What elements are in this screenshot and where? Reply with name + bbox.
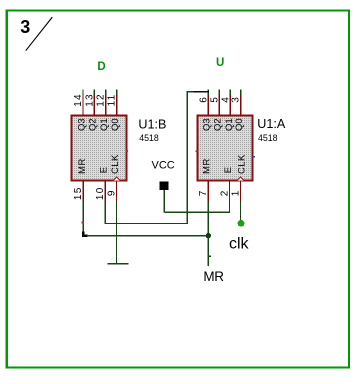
svg-text:12: 12 [96, 93, 107, 107]
black corner of MR wire [83, 232, 87, 236]
svg-text:7: 7 [198, 190, 209, 196]
U1:A pin name Q3 [202, 118, 213, 131]
U1:A left edge red tick [195, 150, 197, 152]
svg-text:4518: 4518 [139, 133, 159, 143]
terminal label clk [229, 235, 250, 252]
sheet slash mark [26, 17, 53, 51]
U1:B value text 4518 [139, 133, 159, 143]
svg-text:5: 5 [209, 97, 220, 103]
U1:A pin name MR [202, 158, 213, 174]
svg-text:Q2: Q2 [213, 118, 224, 131]
U1:B clock chevron on CLK [113, 177, 120, 181]
U1:A pin 2 (E bottom) [219, 181, 230, 202]
U1:A designator text [257, 117, 286, 131]
svg-text:9: 9 [106, 190, 117, 196]
svg-text:6: 6 [198, 97, 209, 103]
wire: U1:A pin2 drop [229, 202, 231, 214]
wire: VCC horizontal to pin2 [164, 211, 229, 213]
U1:B pin name Q2 [88, 118, 99, 131]
U1:A pin 3 (Q0 top) [231, 90, 242, 116]
svg-text:1: 1 [230, 190, 241, 196]
svg-text:Q3: Q3 [76, 118, 87, 131]
svg-text:Q0: Q0 [110, 118, 121, 131]
wire: U1:B pin10 drop [104, 202, 106, 225]
svg-text:MR: MR [202, 158, 213, 174]
svg-text:Q0: Q0 [234, 118, 245, 131]
svg-text:Q3: Q3 [202, 118, 213, 131]
svg-text:3: 3 [231, 97, 242, 103]
wire: U1:A pin6 top horizontal (green part) [187, 91, 194, 93]
wire: horizontal MR-net y=235.6 [87, 235, 208, 237]
U1:B pin 10 (E bottom) [95, 181, 106, 202]
svg-text:3: 3 [20, 17, 30, 37]
svg-text:U: U [216, 57, 224, 69]
wire: U1:B pin9 drop to ground [116, 202, 118, 264]
U1:A pin 4 (Q1 top) [220, 90, 231, 116]
U1:A pin name E [223, 167, 234, 173]
U1:B pin 11 (Q0 top) [107, 90, 118, 116]
clk terminal dot [238, 220, 245, 227]
svg-text:E: E [99, 167, 110, 173]
wire: U1:A pin6 top horizontal (black part) [194, 91, 209, 93]
svg-text:U1:B: U1:B [138, 118, 166, 132]
U1:B pin name E [99, 167, 110, 173]
svg-text:E: E [223, 167, 234, 173]
terminal label MR [203, 269, 224, 284]
svg-text:Q1: Q1 [99, 118, 110, 131]
svg-text:15: 15 [73, 187, 84, 201]
svg-text:CLK: CLK [236, 154, 247, 174]
wire: U1:B pin15 drop (MR net) [82, 202, 84, 233]
net label D [97, 61, 105, 73]
U1:A value text 4518 [258, 133, 278, 143]
U1:A pin 1 (CLK bottom) [230, 181, 241, 202]
wire: horizontal E-net y=223.5 [105, 223, 188, 225]
U1:B pin 15 (MR bottom) [73, 181, 84, 202]
svg-text:Q2: Q2 [88, 118, 99, 131]
U1:B pin name MR [77, 158, 88, 174]
wire: U1:A pin7 drop to junction [207, 202, 209, 236]
svg-text:14: 14 [73, 93, 84, 107]
wire: junction down to MR terminal [208, 236, 211, 266]
svg-text:10: 10 [95, 187, 106, 201]
U1:B pin name CLK [110, 154, 121, 174]
U1:A pin name CLK [236, 154, 247, 174]
U1:A pin 6 (Q3 top) [198, 90, 209, 116]
svg-text:CLK: CLK [110, 154, 121, 174]
U1:A pin name Q2 [213, 118, 224, 131]
U1:B pin 13 (Q2 top) [84, 90, 95, 116]
U1:B pin name Q0 [110, 118, 121, 131]
wire: vertical feedback x=187.4 [186, 91, 188, 224]
U1:B pin name Q1 [99, 118, 110, 131]
svg-text:VCC: VCC [152, 159, 175, 171]
U1:B pin 9 (CLK bottom) [106, 181, 117, 202]
IC U1:B body 4518 [72, 116, 127, 181]
U1:B pin 12 (Q1 top) [96, 90, 107, 116]
U1:B pin 14 (Q3 top) [73, 90, 84, 116]
svg-text:MR: MR [77, 158, 88, 174]
U1:B pin name Q3 [76, 118, 87, 131]
svg-text:U1:A: U1:A [257, 117, 286, 131]
IC U1:A body 4518 [198, 116, 253, 181]
red tick on pin15 wire [82, 222, 84, 224]
svg-text:13: 13 [84, 93, 95, 107]
U1:A pin 7 (MR bottom) [198, 181, 209, 202]
svg-text:MR: MR [203, 269, 224, 284]
U1:A pin name Q0 [234, 118, 245, 131]
svg-text:D: D [97, 61, 105, 73]
VCC power symbol [152, 159, 175, 190]
svg-text:clk: clk [229, 235, 250, 252]
sheet number label 3 [20, 17, 30, 37]
net label U [216, 57, 224, 69]
svg-text:2: 2 [219, 190, 230, 196]
ground [108, 263, 129, 265]
U1:B right edge red tick [126, 150, 128, 152]
U1:A clock chevron on CLK [237, 177, 244, 181]
U1:A right edge blue tick [253, 156, 255, 158]
wire: VCC stem down [163, 190, 165, 212]
svg-text:11: 11 [107, 94, 118, 107]
U1:A pin name Q1 [224, 118, 235, 131]
svg-text:4518: 4518 [258, 133, 278, 143]
U1:A pin 5 (Q2 top) [209, 90, 220, 116]
wire: U1:A pin1 drop to clk [240, 202, 242, 221]
junction dot MR net [206, 233, 211, 238]
U1:B designator text [138, 118, 166, 132]
